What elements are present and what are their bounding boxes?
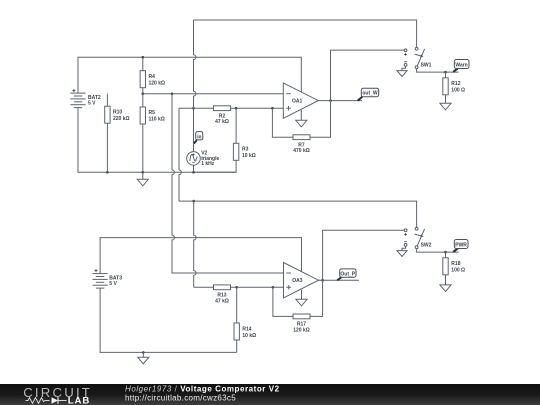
op-amp OA1 [283, 83, 318, 118]
svg-text:in: in [197, 134, 201, 140]
wire feedback loop R17 path [273, 287, 293, 316]
node R14 tap [235, 286, 238, 289]
ground (R12) [440, 103, 451, 110]
node Warn junction [444, 71, 447, 74]
resistor R5 [140, 94, 165, 173]
resistor R3 [194, 108, 256, 172]
wire signal down to R13 (hops 2 lines) [194, 201, 196, 287]
battery BAT3 [93, 269, 123, 288]
svg-text:Warn: Warn [455, 62, 467, 68]
svg-text:220 kΩ: 220 kΩ [113, 116, 130, 122]
wire feedback right leg up to SW2 control [310, 230, 404, 316]
wire SW2 output to PWR node [417, 249, 459, 253]
ground (bottom rail) [138, 352, 149, 363]
node junction in-node on R2 line [192, 107, 195, 110]
wire signal line to SW2 top [179, 201, 417, 227]
resistor R12 [443, 72, 465, 103]
node bottom rail ground junction [142, 351, 145, 354]
svg-text:5 V: 5 V [109, 281, 117, 287]
wire OA1 output [318, 100, 362, 102]
resistor R10 [105, 94, 130, 173]
resistor R7 [293, 135, 310, 154]
svg-text:100 Ω: 100 Ω [451, 268, 465, 274]
svg-text:R12: R12 [451, 81, 460, 87]
svg-text:R4: R4 [149, 74, 156, 80]
wire BAT2 negative to ground rail [78, 108, 236, 173]
svg-text:SW2: SW2 [421, 242, 432, 248]
wire signal node down-branch (from R2 left corner) [179, 108, 181, 201]
svg-text:http://circuitlab.com/cwz63c5: http://circuitlab.com/cwz63c5 [125, 394, 236, 403]
resistor R2 [214, 106, 231, 125]
flag out_W [358, 88, 379, 101]
flag Out_P [337, 269, 356, 281]
wire OA3 output [319, 279, 360, 281]
svg-text:120 kΩ: 120 kΩ [293, 327, 310, 333]
node divider tap to OA3 [171, 92, 174, 95]
wire OA3 V- pin [301, 290, 303, 300]
wire feedback right leg up to switch control [310, 50, 404, 137]
node R13 branch junction [192, 200, 195, 203]
svg-text:SW1: SW1 [421, 62, 432, 68]
svg-text:470 kΩ: 470 kΩ [293, 148, 310, 154]
flag in [194, 132, 203, 144]
voltage source V2 [187, 151, 220, 167]
node feedback tap OA3 [272, 286, 275, 289]
ground (R18) [440, 285, 451, 292]
svg-text:Holger1973 / Voltage Comperato: Holger1973 / Voltage Comperator V2 [125, 384, 280, 393]
ground (top rail) [137, 172, 148, 186]
svg-text:10 kΩ: 10 kΩ [242, 153, 256, 159]
ground (SW1 control) [397, 71, 407, 77]
resistor R18 [443, 252, 465, 285]
node V2 ground junction [192, 171, 195, 174]
wire R13 input line [194, 286, 284, 288]
svg-text:47 kΩ: 47 kΩ [215, 119, 229, 125]
node R10 ground junction [106, 171, 109, 174]
svg-text:110 kΩ: 110 kΩ [149, 117, 165, 123]
svg-text:R14: R14 [242, 326, 251, 332]
svg-text:R18: R18 [451, 261, 460, 267]
wire SW2 minus control to ground [402, 246, 406, 250]
wire divider reference down to OA3 minus (hops 2 rails) [172, 94, 284, 273]
wire BAT3 positive rail to OA3 V+ [100, 238, 301, 274]
wire BAT3 negative to bottom rail [100, 288, 237, 352]
node R5 ground junction [142, 171, 145, 174]
svg-text:OA1: OA1 [292, 99, 303, 105]
wire V2 column (from top rail to V2, hops two rails) [194, 20, 196, 172]
svg-text:R10: R10 [113, 110, 122, 116]
ground (OA3) [296, 299, 307, 306]
op-amp OA3 [284, 263, 319, 298]
svg-text:PWR: PWR [455, 242, 467, 248]
wire feedback loop R7 path [272, 108, 293, 137]
wire OA1 V- pin [300, 110, 302, 120]
node feedback tap [271, 107, 274, 110]
svg-text:10 kΩ: 10 kΩ [242, 333, 256, 339]
switch SW1 [404, 47, 431, 68]
svg-text:R5: R5 [149, 110, 156, 116]
svg-text:1 kHz: 1 kHz [201, 161, 215, 167]
resistor R4 [140, 57, 165, 93]
svg-text:OA3: OA3 [292, 278, 303, 284]
node PWR junction [444, 251, 447, 254]
battery BAT2 [70, 89, 101, 108]
wire SW1 output to Warn node [417, 69, 459, 73]
svg-text:100 Ω: 100 Ω [451, 88, 465, 94]
wire plus input line [179, 107, 283, 109]
node output junction OA3 [321, 279, 324, 282]
wire SW1 minus control to ground [402, 66, 406, 70]
ground (SW2 control) [397, 251, 407, 257]
svg-text:47 kΩ: 47 kΩ [215, 298, 229, 304]
svg-text:5 V: 5 V [88, 101, 96, 107]
resistor R13 [214, 285, 231, 304]
flag Warn [453, 60, 469, 72]
svg-text:Out_P: Out_P [340, 271, 355, 277]
node output junction OA1 [329, 99, 332, 102]
switch SW2 [404, 227, 431, 248]
svg-text:LAB: LAB [68, 396, 90, 405]
node R3 tap [235, 107, 238, 110]
resistor R14 [234, 287, 256, 352]
flag PWR [453, 240, 468, 252]
wire minus rail (R4/R5 divider to OA1 minus) [143, 93, 283, 95]
resistor R17 [293, 314, 310, 333]
ground (OA1) [296, 120, 307, 127]
svg-text:R3: R3 [242, 147, 249, 153]
svg-text:120 kΩ: 120 kΩ [149, 81, 166, 87]
wire top rail [194, 20, 417, 47]
wire BAT2 positive rail to OA1 V+ [78, 57, 301, 93]
node R4/R5 junction [142, 92, 145, 95]
node R4 top junction [142, 56, 145, 59]
svg-text:out_W: out_W [362, 91, 378, 97]
